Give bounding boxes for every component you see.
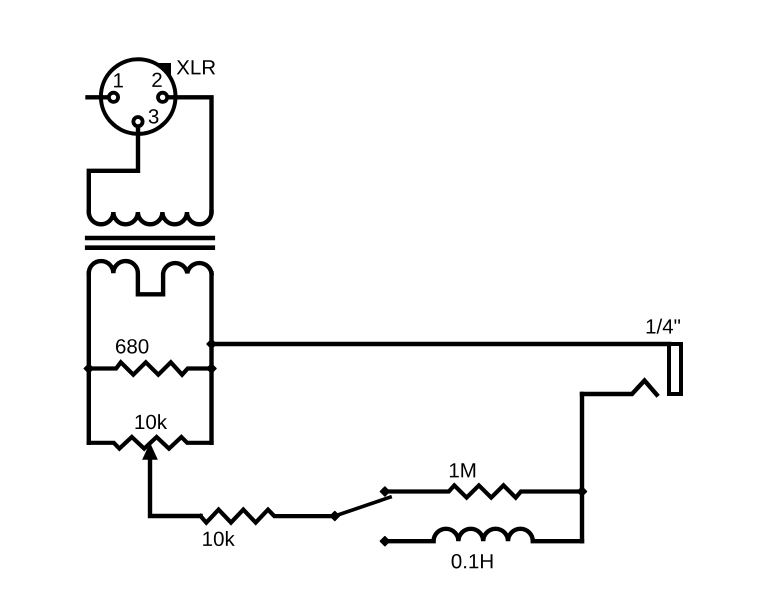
label 10k (pot) [136,414,168,429]
XLR shell notch [158,63,171,77]
switch S1 lever [335,497,392,516]
junction: left rail / 680 [84,364,93,373]
transformer T1 secondary winding with centre notch [89,261,212,294]
wire: left rail [87,273,91,443]
XLR connector shell [101,59,176,134]
wire: tip line to jack [212,342,670,346]
potentiometer 10k element [89,437,212,449]
jack sleeve spring contact (chevron) [582,381,657,395]
jack body 1/4 inch plug [669,344,681,394]
label 0.1H [452,554,493,569]
XLR pin 1 contact [109,93,118,102]
transformer core [87,238,213,248]
wire: XLR pin 1 stub [88,95,109,99]
wire: wiper to series resistor [150,458,201,516]
wire: XLR pin 2 to transformer primary right [167,97,211,212]
resistor 1M [385,485,582,497]
pin number 2 [152,73,161,87]
label 1M [450,463,475,477]
wire: XLR pin 3 to transformer primary left [89,126,138,212]
XLR pin 2 contact [158,93,167,102]
junction: switch throw to 0.1H [380,537,389,546]
pin number 3 [149,109,159,124]
junction: right rail / 680 [207,364,216,373]
junction: switch common [330,512,339,521]
junction: riser / 1M node [578,487,587,496]
inductor 0.1H [385,529,582,541]
XLR pin 3 contact [133,117,142,126]
transformer T1 primary winding [89,212,212,224]
label 10k (series) [203,531,235,546]
wire: right riser to jack sleeve [580,394,584,541]
wire: right rail [209,273,213,443]
label 680 [116,339,148,354]
pin number 1 [114,73,123,87]
resistor 10k (series) [201,510,335,523]
junction: right rail / jack wire [207,340,216,349]
junction: switch throw to 1M [380,487,389,496]
resistor 680 [89,362,212,374]
label 1/4" [647,319,680,334]
label XLR [177,60,215,74]
potentiometer wiper arrow [143,445,156,459]
